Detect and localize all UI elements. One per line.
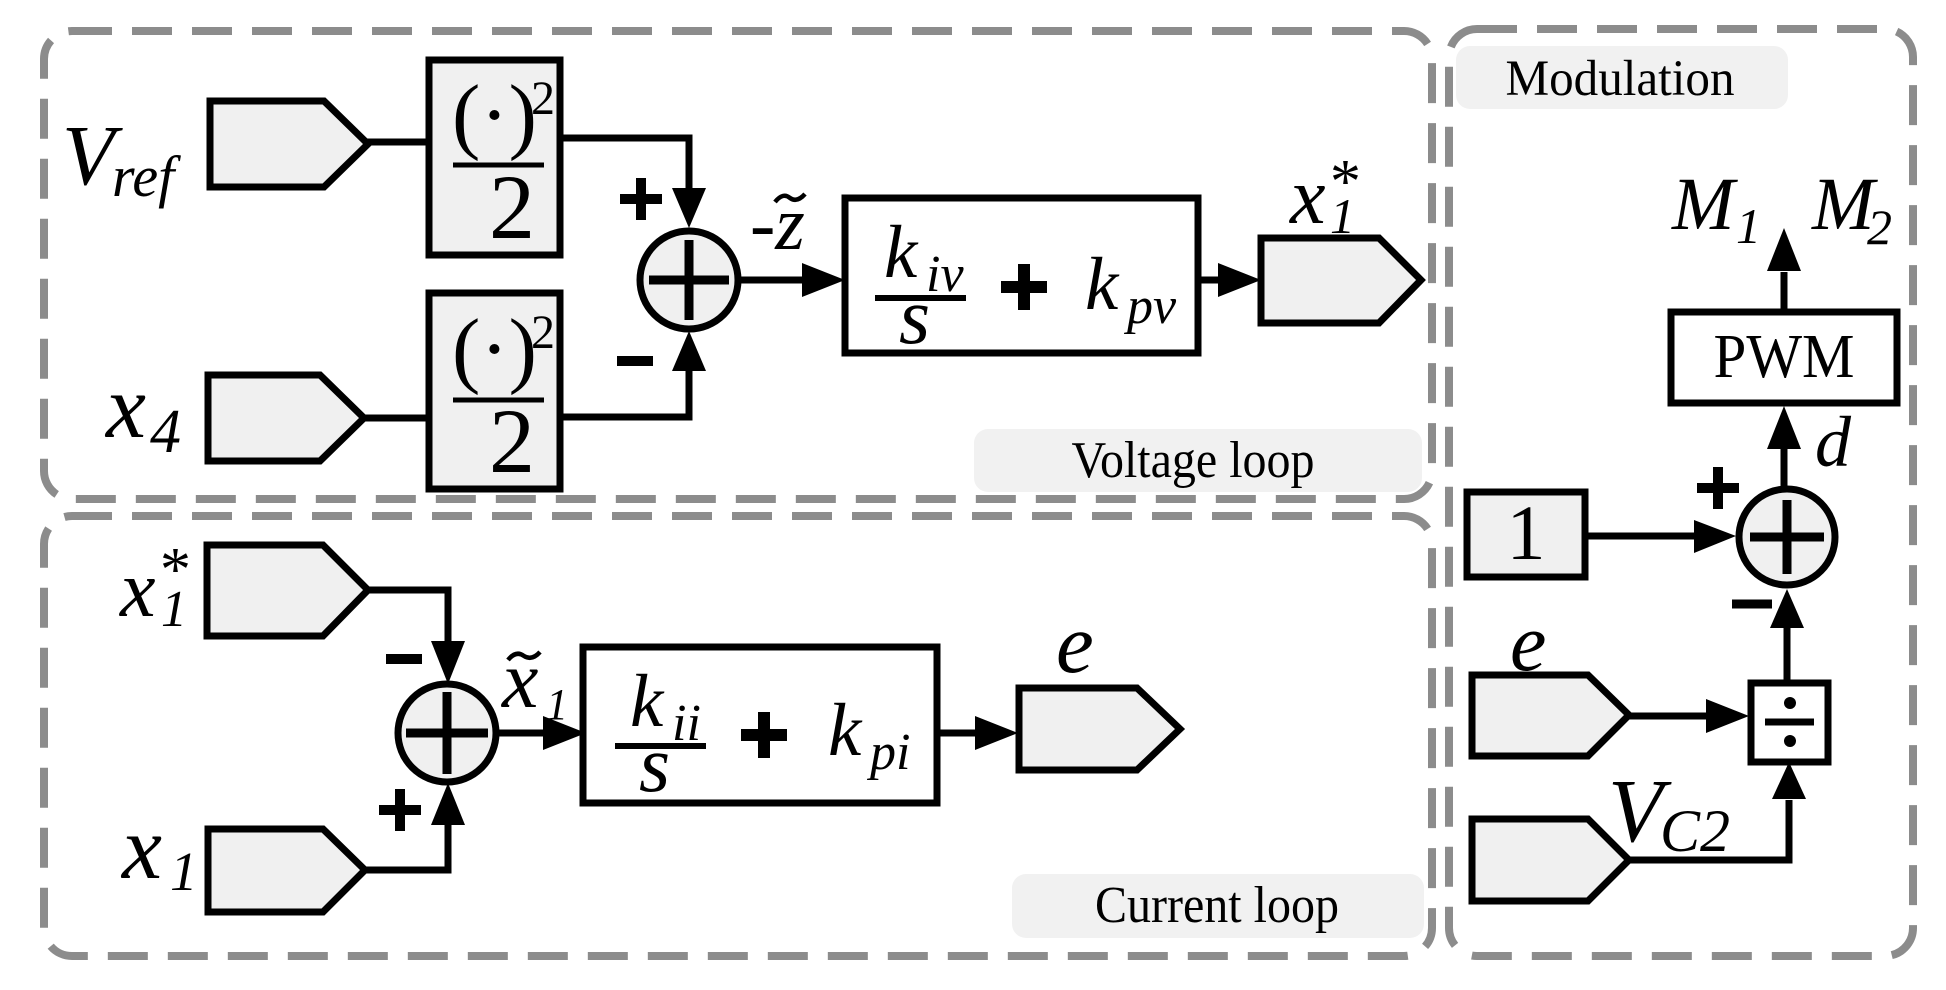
arrowhead into PI current (543, 716, 586, 750)
wire summer mod to PWM (1781, 448, 1788, 487)
svg-text:Current loop: Current loop (1095, 877, 1339, 934)
arrowhead up into divide (1772, 762, 1806, 799)
svg-text:2: 2 (1867, 199, 1892, 255)
node VC2 label (1608, 762, 1730, 864)
node x1* input label (119, 536, 188, 638)
svg-text:1: 1 (170, 841, 198, 902)
block PWM (1671, 312, 1897, 403)
svg-text:e: e (1056, 597, 1094, 691)
svg-text:x: x (501, 634, 538, 725)
voltage loop container (44, 31, 1432, 499)
arrowhead into PI block (802, 263, 845, 297)
svg-text:pv: pv (1123, 278, 1177, 335)
wire summer to PI block (738, 277, 805, 284)
arrowhead up into current summer (431, 783, 465, 825)
current loop label (1012, 874, 1424, 938)
wire block2 to summer bottom (560, 368, 689, 417)
svg-text:1: 1 (1736, 198, 1761, 254)
wire summer to PI current (496, 730, 547, 737)
node x1 label (120, 799, 198, 902)
wire PWM up to M (1781, 272, 1788, 313)
minus sign current summer (386, 654, 422, 664)
svg-text:x: x (119, 546, 156, 634)
node M1 M2 labels (1671, 163, 1892, 255)
arrowhead down into current summer (431, 641, 465, 684)
wire divide to mod summer (1784, 627, 1791, 683)
wire x1 to summer bottom (363, 820, 448, 870)
svg-text:k: k (1085, 243, 1120, 326)
svg-text:C2: C2 (1660, 798, 1730, 864)
arrowhead up into PWM (1767, 406, 1801, 449)
input tag x1 (208, 829, 365, 912)
wire PI to output tag (1198, 277, 1222, 284)
block PI voltage kiv/s + kpv (845, 198, 1198, 361)
svg-text:k: k (828, 689, 863, 772)
svg-text:iv: iv (926, 246, 964, 303)
svg-text:ref: ref (112, 144, 181, 209)
svg-text:2: 2 (489, 390, 535, 492)
wire VC2 to divide (1627, 800, 1789, 860)
summer current loop (398, 684, 496, 782)
voltage loop label (974, 429, 1422, 492)
svg-text:Voltage loop: Voltage loop (1072, 432, 1315, 489)
arrowhead into output tag (1218, 263, 1261, 297)
arrowhead up M output (1767, 228, 1801, 271)
block divide (1751, 683, 1828, 762)
modulation container (1449, 29, 1913, 956)
summer voltage loop (640, 231, 738, 329)
node -z~ label (750, 182, 805, 266)
wire block1 to summer top (560, 138, 689, 191)
block constant 1 (1467, 489, 1585, 577)
wire e to divide (1627, 713, 1710, 720)
plus sign mod summer (1697, 467, 1739, 509)
input tag x4 (208, 375, 364, 461)
svg-text:d: d (1815, 402, 1852, 482)
wire 1 to mod summer (1585, 533, 1698, 540)
plus sign voltage summer (620, 178, 662, 220)
node x4 label (104, 358, 181, 466)
svg-text:Modulation: Modulation (1506, 51, 1735, 107)
output tag x1* (1261, 238, 1421, 323)
svg-text:x: x (104, 358, 146, 457)
svg-text:1: 1 (161, 581, 187, 638)
node x1* label top (1289, 148, 1358, 244)
arrowhead into divide (1706, 699, 1749, 733)
wire x4 to square block (362, 415, 429, 422)
svg-text:2: 2 (531, 306, 555, 359)
plus sign current summer (379, 789, 421, 831)
svg-text:s: s (639, 721, 670, 809)
node x1~ label (501, 634, 568, 729)
node Vref label (62, 107, 181, 209)
svg-text:1: 1 (1330, 188, 1355, 244)
input tag VC2 (1472, 819, 1629, 901)
wire PI current to output tag e (937, 730, 979, 737)
svg-text:pi: pi (866, 724, 910, 781)
svg-text:4: 4 (150, 398, 181, 466)
svg-text:-z: -z (750, 182, 805, 266)
summer modulation (1739, 489, 1835, 585)
arrowhead up into summer (672, 331, 706, 371)
arrowhead into output tag e (975, 716, 1018, 750)
svg-text:x: x (120, 799, 162, 898)
current loop container (44, 516, 1432, 956)
minus sign voltage summer (617, 356, 653, 366)
wire x1* to summer top (366, 590, 448, 647)
input tag e modulation (1472, 675, 1629, 756)
svg-text:PWM: PWM (1714, 323, 1855, 391)
svg-text:M: M (1671, 163, 1738, 246)
arrowhead up into mod summer (1770, 589, 1804, 628)
modulation label (1456, 46, 1788, 109)
block square2 (.)^2/2 (429, 293, 560, 492)
arrowhead into mod summer (1694, 520, 1736, 553)
svg-text:2: 2 (531, 72, 555, 125)
svg-text:(·): (·) (452, 68, 537, 162)
block PI current kii/s + kpi (583, 647, 937, 809)
svg-text:(·): (·) (452, 302, 537, 396)
minus sign mod summer (1732, 600, 1772, 609)
svg-text:1: 1 (546, 680, 568, 729)
arrowhead down into summer (672, 188, 706, 228)
svg-text:1: 1 (1507, 489, 1546, 576)
output tag e (1019, 688, 1180, 770)
input tag Vref (210, 101, 368, 187)
block square1 (.)^2/2 (429, 60, 560, 258)
svg-text:x: x (1289, 153, 1326, 241)
input tag x1* (207, 545, 368, 636)
wire Vref to square block (366, 139, 429, 146)
svg-text:2: 2 (489, 156, 535, 258)
svg-text:s: s (899, 273, 930, 361)
